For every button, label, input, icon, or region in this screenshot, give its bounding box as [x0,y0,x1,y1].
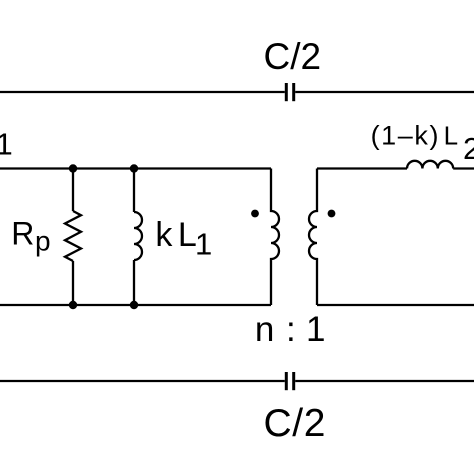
svg-text:p: p [35,226,51,257]
wire top-right rail [295,91,474,93]
wire main box top-left (node to transformer primary) [0,167,271,169]
svg-text:2: 2 [463,131,474,166]
wire main box bottom-left rail [0,304,271,306]
transformer T1 primary polarity dot [251,210,259,218]
label kL1 [155,216,212,262]
transformer T1 secondary polarity dot [328,210,336,218]
svg-text:(1–k): (1–k) [371,121,441,151]
wire kL1 bottom lead [133,260,135,305]
wire right box top lead [317,167,407,169]
resistor Rp [65,211,81,261]
transformer T1 secondary winding [309,169,317,306]
capacitor C/2 bottom [286,372,293,390]
wire right box top rail to edge [453,167,474,169]
svg-text::: : [286,310,296,349]
wire right box bottom rail [317,304,474,306]
inductor (1-k)L2 [407,161,453,169]
capacitor C/2 top [286,83,293,101]
svg-text:1: 1 [195,227,212,262]
wire bottom-left rail [0,380,285,382]
label (1-k)L2 [371,121,474,167]
svg-text:L: L [444,121,458,151]
svg-text:R: R [11,215,34,251]
node B junction dot [130,164,138,172]
wire Rp top lead [72,169,74,212]
svg-text:n: n [255,310,274,349]
svg-text:k: k [155,216,173,254]
svg-text:C/2: C/2 [264,36,322,77]
svg-text:L: L [178,216,197,254]
svg-text:1: 1 [0,127,13,162]
transformer T1 primary winding [271,169,279,306]
svg-text:1: 1 [306,310,325,349]
inductor kL1 [134,212,142,260]
node C junction dot [69,301,77,309]
wire Rp bottom lead [72,261,74,305]
wire bottom-right rail [295,380,474,382]
node A junction dot [69,164,77,172]
wire kL1 top lead [133,169,135,213]
svg-text:C/2: C/2 [264,402,327,445]
wire top-left rail [0,91,285,93]
node D junction dot [130,301,138,309]
label Rp [11,215,50,256]
